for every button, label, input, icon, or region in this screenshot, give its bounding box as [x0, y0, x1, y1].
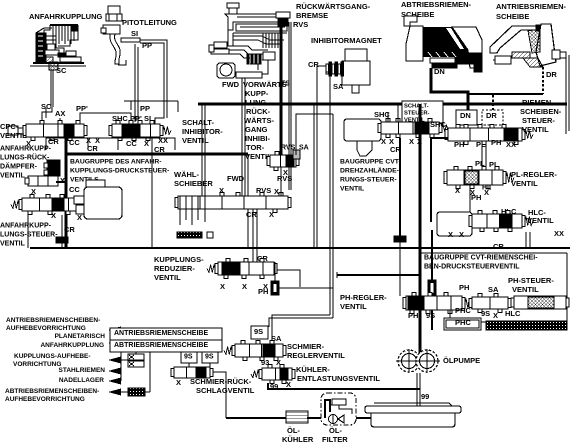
- svg-text:KÜHLER-: KÜHLER-: [296, 365, 330, 374]
- svg-text:PITOTLEITUNG: PITOTLEITUNG: [122, 18, 177, 27]
- wire valve left end down to box bottom: [27, 211, 29, 248]
- svg-text:SI: SI: [131, 29, 138, 38]
- svg-text:SHC: SHC: [112, 114, 128, 123]
- svg-text:VENTIL: VENTIL: [512, 285, 539, 294]
- wires 9S to valve: [189, 363, 210, 367]
- label PITOTLEITUNG: [122, 18, 177, 27]
- svg-text:DR: DR: [486, 111, 497, 120]
- ports X X X PH: [220, 282, 268, 296]
- svg-text:PH: PH: [491, 138, 501, 147]
- wire CR pair from waehlschieber down: [253, 209, 257, 262]
- legend arrows: [108, 327, 128, 396]
- svg-text:X: X: [286, 380, 291, 389]
- svg-text:RÜCK-: RÜCK-: [246, 107, 271, 116]
- box PHC: [444, 310, 481, 330]
- svg-text:9S: 9S: [205, 354, 214, 361]
- svg-text:X: X: [274, 187, 279, 196]
- svg-text:NADELLAGER: NADELLAGER: [59, 377, 104, 384]
- label ABTRIEBSRIEMENSCHEIBE: [401, 0, 472, 19]
- svg-text:BEN-DRUCKSTEUERVENTIL: BEN-DRUCKSTEUERVENTIL: [424, 264, 520, 271]
- svg-text:ANTRIEBSRIEMENSCHEIBE: ANTRIEBSRIEMENSCHEIBE: [114, 330, 208, 337]
- clutch ANFAHRKUPPLUNG drawing: [30, 25, 86, 70]
- svg-text:VORRICHTUNG: VORRICHTUNG: [13, 361, 61, 368]
- svg-text:ÖL-: ÖL-: [287, 426, 300, 435]
- box inner baugruppe top edge: [66, 154, 248, 248]
- svg-text:SC: SC: [41, 102, 52, 111]
- label SHC left: [430, 120, 446, 129]
- valve PL-REGLER-VENTIL: [444, 167, 514, 189]
- svg-text:STAHLRIEMEN: STAHLRIEMEN: [59, 367, 106, 374]
- svg-text:INHIBITORMAGNET: INHIBITORMAGNET: [311, 36, 382, 45]
- svg-text:ANFAHRKUPP-: ANFAHRKUPP-: [0, 146, 52, 153]
- svg-text:RVS: RVS: [293, 20, 308, 29]
- svg-text:X: X: [409, 137, 414, 146]
- svg-text:CR: CR: [246, 210, 257, 219]
- label CR at magnet: [308, 60, 319, 69]
- labels PL PL: [475, 159, 499, 169]
- wire main bus horizontal: [198, 103, 567, 106]
- svg-text:SCHEIBE: SCHEIBE: [496, 12, 529, 21]
- clutch VORWAERTSKUPPLUNG drawing: [209, 3, 287, 78]
- boxed label ANTRIEBSRIEMENSCHEIBE: [110, 328, 222, 340]
- box BAUGRUPPE CVT-RIEMENSCHEIBEN-DRUCKSTEUERVENTIL: [420, 253, 567, 330]
- svg-text:CR: CR: [87, 144, 98, 153]
- cooler OEL-KUEHLER: [286, 411, 308, 423]
- svg-text:X: X: [381, 137, 386, 146]
- port X under CPC: [26, 139, 31, 148]
- port SI stub from pitot: [121, 29, 140, 42]
- svg-text:ANFAHRKUPPLUNG: ANFAHRKUPPLUNG: [40, 342, 104, 349]
- svg-text:SA: SA: [333, 82, 344, 91]
- connector valve-solenoid: [74, 196, 84, 214]
- svg-text:PH: PH: [258, 287, 268, 296]
- pulley ABTRIEBSRIEMENSCHEIBE drawing: [404, 16, 482, 72]
- svg-text:DN: DN: [434, 67, 445, 76]
- node label SC upper: [56, 66, 67, 75]
- svg-text:CR: CR: [308, 60, 319, 69]
- svg-text:PL-REGLER-: PL-REGLER-: [511, 170, 557, 179]
- svg-text:REGLERVENTIL: REGLERVENTIL: [287, 351, 345, 360]
- label KUPPLUNGS-REDUZIER-VENTIL: [154, 255, 204, 282]
- label ANFAHRKUPPLUNGS-STEUERVENTIL: [0, 223, 58, 248]
- ports PH 9S PHC: [408, 306, 471, 320]
- wire PL pair down to regler: [482, 145, 486, 170]
- svg-text:X: X: [242, 282, 247, 291]
- svg-text:CR: CR: [154, 145, 165, 154]
- label PP top: [140, 104, 150, 113]
- svg-text:VENTIL: VENTIL: [0, 173, 26, 180]
- label SCHMIER-REGLERVENTIL: [287, 342, 345, 360]
- svg-text:SCHALT-: SCHALT-: [182, 118, 214, 127]
- svg-text:RUNGS-STEUER-: RUNGS-STEUER-: [340, 176, 397, 183]
- label SCHALT-INHIBITOR-VENTIL: [182, 118, 223, 145]
- box 9S: [251, 326, 268, 339]
- box DR dashed: [482, 110, 503, 125]
- pulley ANTRIEBSRIEMENSCHEIBE drawing: [490, 24, 566, 67]
- wire pulley output right to bus: [560, 55, 569, 134]
- valve PH-REGLER-VENTIL: [403, 293, 473, 314]
- label INHIBITORMAGNET: [311, 36, 382, 45]
- svg-text:SI: SI: [144, 114, 151, 123]
- wire bottom line to cooler: [226, 417, 371, 419]
- svg-text:GANG: GANG: [245, 125, 268, 134]
- label OEL-FILTER: [322, 426, 348, 444]
- label PH above: [459, 283, 469, 292]
- label SA: [488, 285, 499, 294]
- wire RVS valve to waehlschieber: [280, 167, 282, 196]
- legend symbol brackets: [128, 352, 144, 367]
- valve CPC-VENTIL: [8, 121, 87, 141]
- svg-text:BAUGRUPPE CVT-RIEMENSCHEI-: BAUGRUPPE CVT-RIEMENSCHEI-: [424, 255, 538, 262]
- ports 99 X: [270, 380, 291, 391]
- svg-text:XX: XX: [158, 136, 168, 145]
- valve SCHALT-INHIBITOR-VENTIL: [109, 121, 171, 141]
- svg-text:PHC: PHC: [455, 318, 471, 327]
- box DN: [456, 110, 477, 125]
- svg-text:PP: PP: [142, 41, 152, 50]
- svg-text:X: X: [459, 230, 464, 239]
- svg-text:SCHMIER-: SCHMIER-: [287, 342, 325, 351]
- wire second bus horizontal: [30, 247, 570, 249]
- labels RVS SA above valve: [281, 145, 309, 152]
- svg-text:SCHEIBEN-: SCHEIBEN-: [520, 107, 562, 116]
- pitot tube drawing: [101, 6, 126, 65]
- svg-text:9S: 9S: [254, 327, 263, 336]
- valve RIEMENSCHEIBEN-STEUERVENTIL: [445, 125, 533, 145]
- ports 93 X: [261, 358, 281, 367]
- svg-text:ÖLPUMPE: ÖLPUMPE: [443, 356, 480, 365]
- svg-text:WÄHL-: WÄHL-: [174, 170, 199, 179]
- label SA: [271, 334, 282, 343]
- svg-text:ANTRIEBSRIEMEN-: ANTRIEBSRIEMEN-: [496, 2, 567, 11]
- box around inhibitor region: [124, 101, 178, 112]
- wire SC from clutch down: [51, 70, 53, 107]
- wires boxes to valve: [466, 125, 492, 128]
- wire PP down to valve: [135, 44, 138, 122]
- svg-text:VENTIL: VENTIL: [154, 273, 181, 282]
- wire PL regler down to HLC: [469, 185, 471, 214]
- ports XX XX CR: [381, 137, 422, 154]
- label CPC-VENTIL: [0, 122, 27, 140]
- label RIEMENSCHEIBEN-STEUERVENTIL: [520, 98, 562, 134]
- node label AX: [55, 109, 65, 124]
- svg-text:DREHZAHLÄNDE-: DREHZAHLÄNDE-: [340, 166, 399, 174]
- valve WAEHLSCHIEBER manual: [175, 193, 291, 239]
- svg-text:X: X: [176, 378, 181, 387]
- svg-text:X: X: [455, 186, 460, 195]
- svg-text:9S: 9S: [481, 309, 490, 318]
- label BAUGRUPPE DES ANFAHR...: [70, 158, 169, 183]
- wire CR from magnet down: [314, 66, 326, 248]
- svg-text:AUFHEBEVORRICHTUNG: AUFHEBEVORRICHTUNG: [5, 396, 85, 403]
- svg-text:HL: HL: [482, 185, 492, 192]
- svg-text:BAUGRUPPE DES ANFAHR-: BAUGRUPPE DES ANFAHR-: [70, 158, 162, 165]
- label OEL-KUEHLER: [282, 426, 314, 444]
- ports X RVS below valve: [277, 168, 292, 183]
- svg-text:VENTIL: VENTIL: [527, 216, 554, 225]
- svg-text:DR: DR: [546, 70, 557, 79]
- svg-text:AUFHEBEVORRICHTUNG: AUFHEBEVORRICHTUNG: [6, 325, 86, 332]
- valve PH-STEUERVENTIL hatched: [511, 296, 569, 309]
- svg-text:ABTRIEBSRIEMENSCHEIBE: ABTRIEBSRIEMENSCHEIBE: [114, 342, 208, 349]
- brake RVS drawing: [276, 12, 308, 88]
- svg-text:INHIBI-: INHIBI-: [245, 134, 271, 143]
- svg-text:9S: 9S: [184, 354, 193, 361]
- svg-text:KUPP-: KUPP-: [245, 89, 269, 98]
- svg-text:X: X: [60, 176, 65, 185]
- boxes 9S 9S: [181, 352, 218, 363]
- port CC under CPC: [69, 138, 80, 147]
- svg-text:SC: SC: [56, 66, 67, 75]
- svg-text:PH: PH: [408, 311, 418, 320]
- svg-text:PP': PP': [130, 114, 142, 123]
- wire PH link middle: [337, 272, 420, 278]
- svg-text:PLANETARISCH: PLANETARISCH: [55, 333, 106, 340]
- svg-text:PL: PL: [476, 140, 486, 149]
- solenoid of drucksteuerventil: [84, 180, 122, 219]
- svg-text:ÖL-: ÖL-: [329, 426, 342, 435]
- wire CR from valve down: [394, 138, 406, 296]
- labels FWD VORWAERTS-KUPPLUNG: [222, 80, 290, 107]
- wire SA from magnet down: [326, 72, 330, 315]
- svg-text:AX: AX: [55, 109, 65, 118]
- solenoid INHIBITORMAGNET drawing: [326, 49, 370, 93]
- box waehlschieber compartment: [151, 150, 153, 248]
- label HLC-VENTIL: [527, 208, 554, 225]
- svg-text:CR: CR: [64, 225, 75, 234]
- wire SHC thick elbow down: [431, 138, 448, 222]
- wire CC thick vertical: [65, 137, 68, 248]
- svg-text:RVS: RVS: [281, 145, 296, 152]
- ports X X XX CR: [448, 229, 564, 251]
- label BAUGRUPPE CVT-DREHZAHL: [340, 158, 401, 192]
- svg-text:STEUER-: STEUER-: [404, 111, 430, 117]
- filter OEL-FILTER: [321, 393, 356, 425]
- svg-text:PH-REGLER-: PH-REGLER-: [340, 293, 387, 302]
- svg-text:LUNGS-RÜCK-: LUNGS-RÜCK-: [0, 153, 50, 162]
- svg-text:VENTIL: VENTIL: [0, 241, 26, 248]
- svg-text:FILTER: FILTER: [322, 435, 348, 444]
- svg-text:PH: PH: [454, 140, 464, 149]
- label RUECKWAERTSGANG-BREMSE: [296, 2, 371, 20]
- label KUEHLER-ENTLASTUNGSVENTIL: [296, 365, 380, 383]
- svg-text:TOR-: TOR-: [246, 143, 265, 152]
- legend dotted element abtriebs: [128, 352, 150, 396]
- wire daempfer to CC line: [56, 181, 66, 183]
- valve CVT-DREHZAHLAENDERUNGS-STEUERVENTIL: [378, 119, 450, 138]
- svg-text:KÜHLER: KÜHLER: [282, 435, 314, 444]
- label SCHMIER-RUECKSCHLAGVENTIL: [176, 377, 255, 395]
- pump OELPUMPE: [396, 349, 440, 373]
- valve KUEHLER-ENTLASTUNGSVENTIL: [251, 365, 295, 384]
- valve KUPPLUNGS-REDUZIER-VENTIL: [207, 259, 277, 279]
- wire DN-DR link bar: [468, 93, 543, 95]
- valve link piece: [469, 294, 511, 313]
- wire SI to schalt-inhibitor valve: [140, 40, 167, 124]
- svg-text:WÄRTS-: WÄRTS-: [244, 116, 274, 125]
- label CR: [257, 254, 268, 263]
- svg-text:KUPPLUNGS-: KUPPLUNGS-: [154, 255, 204, 264]
- wire SA elbow: [296, 114, 333, 155]
- wire PP' horizontal: [80, 113, 131, 124]
- wire SHC stub up: [388, 104, 398, 122]
- svg-text:X: X: [220, 282, 225, 291]
- label WAEHLSCHIEBER: [174, 170, 213, 188]
- svg-text:FWD: FWD: [227, 174, 245, 183]
- svg-text:XX: XX: [506, 140, 516, 149]
- svg-text:ENTLASTUNGSVENTIL: ENTLASTUNGSVENTIL: [297, 374, 380, 383]
- svg-text:BREMSE: BREMSE: [296, 11, 328, 20]
- pan oil sump: [365, 403, 461, 427]
- svg-text:VENTIL: VENTIL: [340, 302, 367, 311]
- orifice CR below steuerventil: [56, 215, 68, 248]
- ports X X X HL PH: [455, 185, 492, 202]
- svg-text:VENTIL: VENTIL: [522, 125, 549, 134]
- svg-text:PH-STEUER-: PH-STEUER-: [508, 276, 554, 285]
- legend labels left stack: [5, 317, 105, 403]
- orifice vertical above PH regler: [428, 230, 436, 330]
- wire schmier bottom bus: [268, 383, 420, 389]
- svg-text:VENTIL: VENTIL: [511, 179, 538, 188]
- svg-text:SCHIEBER: SCHIEBER: [174, 179, 213, 188]
- svg-text:X: X: [144, 139, 149, 148]
- svg-text:ABTRIEBSRIEMEN-: ABTRIEBSRIEMEN-: [401, 0, 472, 9]
- port PP label: [142, 41, 152, 50]
- wire pump to pan: [417, 373, 420, 426]
- wire DR dashed from pulley: [493, 67, 543, 110]
- svg-text:CC: CC: [69, 185, 80, 194]
- orifice PH + wire right: [271, 262, 333, 295]
- svg-text:ANTRIEBSRIEMENSCHEIBEN-: ANTRIEBSRIEMENSCHEIBEN-: [6, 317, 100, 324]
- svg-text:ABTRIEBSRIEMENSCHEIBEN-: ABTRIEBSRIEMENSCHEIBEN-: [5, 388, 99, 395]
- ports under schalt-inhibitor valve: [86, 136, 168, 154]
- svg-text:LUNG: LUNG: [245, 98, 266, 107]
- svg-text:RVS: RVS: [277, 174, 292, 183]
- port X under daempfer: [31, 176, 65, 196]
- svg-text:X: X: [219, 186, 224, 195]
- valve ANFAHRKUPPLUNGS-STEUERVENTIL: [11, 195, 83, 215]
- port labels SHC PP' SI: [112, 114, 151, 123]
- accumulator HLC: [437, 212, 472, 236]
- wire RVS thick down to inhibitor valve: [280, 26, 283, 157]
- wire main CR line vertical thick: [419, 104, 422, 356]
- ports 9S X HLC: [481, 309, 521, 320]
- wire valve to oil cooler line: [213, 372, 226, 418]
- label SA at magnet: [333, 82, 344, 91]
- node label SC lower: [41, 102, 52, 111]
- valve rueckdaempfer: [25, 160, 60, 186]
- label HLC: [501, 207, 517, 216]
- svg-text:SCHMIER-RÜCK-: SCHMIER-RÜCK-: [190, 377, 252, 386]
- svg-text:SCHALT-: SCHALT-: [404, 104, 429, 110]
- svg-text:PH: PH: [459, 283, 469, 292]
- label SHC: [374, 110, 390, 119]
- svg-text:DN: DN: [460, 111, 471, 120]
- svg-text:KUPPLUNGS-AUFHEBE-: KUPPLUNGS-AUFHEBE-: [14, 353, 91, 360]
- label DR: [546, 70, 557, 79]
- svg-text:HLC: HLC: [505, 309, 521, 318]
- box BAUGRUPPE DES ANFAHRKUPPLUNGS-DRUCKSTEUERVENTILS: [46, 138, 175, 150]
- svg-text:LUNGS-STEUER-: LUNGS-STEUER-: [0, 232, 58, 239]
- svg-text:X: X: [77, 213, 82, 222]
- label PH-STEUER-VENTIL: [508, 276, 554, 294]
- valve SCHMIER-RUECKSCHLAGVENTIL: [171, 367, 213, 378]
- wire FWD clutch stem down: [242, 78, 245, 196]
- svg-text:DÄMPFER-: DÄMPFER-: [0, 163, 38, 171]
- svg-text:SA: SA: [488, 285, 499, 294]
- label ANTRIEBSRIEMENSCHEIBE: [496, 2, 567, 21]
- svg-text:TS: TS: [281, 81, 290, 88]
- svg-text:X: X: [269, 210, 274, 219]
- label DN: [434, 67, 445, 76]
- label PL-REGLER-VENTIL: [511, 170, 557, 188]
- accumulator CVT drehzahl: [344, 119, 381, 156]
- svg-text:ANFAHRKUPPLUNG: ANFAHRKUPPLUNG: [29, 12, 103, 21]
- box SCHALT-STEUER-VENTIL mini label: [402, 101, 443, 124]
- wire clutch right edge down (RVS drum): [289, 22, 291, 190]
- port labels waehlschieber: [219, 174, 279, 219]
- svg-text:CPC-: CPC-: [0, 122, 19, 131]
- valve SCHMIER-REGLERVENTIL: [224, 341, 286, 361]
- svg-text:VENTIL: VENTIL: [340, 185, 364, 192]
- svg-text:CR: CR: [493, 242, 504, 251]
- svg-text:ANFAHRKUPP-: ANFAHRKUPP-: [0, 223, 52, 230]
- svg-text:PP': PP': [76, 104, 88, 113]
- label ANFAHRKUPPLUNG: [29, 12, 103, 21]
- svg-text:X: X: [448, 230, 453, 239]
- svg-text:REDUZIER-: REDUZIER-: [154, 264, 195, 273]
- ports X X CR under steuerventil: [51, 211, 82, 234]
- node label PP': [76, 104, 88, 113]
- label 99: [421, 392, 429, 401]
- svg-text:KUPPLUNGS-DRUCKSTEUER-: KUPPLUNGS-DRUCKSTEUER-: [70, 167, 169, 174]
- svg-text:PP: PP: [140, 104, 150, 113]
- svg-text:9S: 9S: [426, 311, 435, 320]
- svg-text:RIEMEN-: RIEMEN-: [522, 98, 554, 107]
- svg-text:BAUGRUPPE CVT-: BAUGRUPPE CVT-: [340, 158, 401, 165]
- svg-text:SA: SA: [299, 145, 309, 152]
- label PH-REGLER-VENTIL: [340, 293, 387, 311]
- svg-text:X: X: [51, 211, 56, 220]
- svg-text:99: 99: [421, 392, 429, 401]
- label BAUGRUPPE CVT-RIEMENSCHEIBEN: [424, 255, 538, 271]
- valve HLC-VENTIL: [469, 211, 533, 232]
- label OELPUMPE: [443, 356, 480, 365]
- wire HLC valve right pair down: [526, 232, 530, 248]
- svg-text:X: X: [493, 311, 498, 320]
- boxed label ABTRIEBSRIEMENSCHEIBE: [110, 340, 222, 352]
- label RUECKWAERTSGANG-INHIBITOR-VENTIL: [244, 107, 274, 161]
- svg-text:VENTIL: VENTIL: [0, 131, 27, 140]
- svg-text:FWD: FWD: [222, 80, 240, 89]
- wire SC elbow into CPC valve: [42, 107, 52, 122]
- svg-text:CC: CC: [69, 138, 80, 147]
- svg-text:SHC: SHC: [430, 120, 446, 129]
- valve RUECKWAERTSGANG-INHIBITOR: [267, 150, 300, 171]
- port CR under CPC: [48, 137, 59, 146]
- ports PH PL PH XX: [454, 138, 516, 149]
- label CC mid: [69, 185, 80, 194]
- label ANFAHRKUPPLUNGS-RUECKDAEMPFER-VENTIL: [0, 146, 52, 180]
- svg-text:RVS: RVS: [256, 186, 271, 195]
- svg-text:STEUER-: STEUER-: [522, 116, 555, 125]
- svg-text:XX: XX: [554, 229, 564, 238]
- svg-text:PH: PH: [471, 193, 481, 202]
- svg-text:CC: CC: [126, 139, 137, 148]
- wire left feed down from bus: [202, 104, 205, 198]
- svg-text:RÜCKWÄRTSGANG-: RÜCKWÄRTSGANG-: [296, 2, 371, 11]
- wire long pair down to 9S: [269, 114, 333, 344]
